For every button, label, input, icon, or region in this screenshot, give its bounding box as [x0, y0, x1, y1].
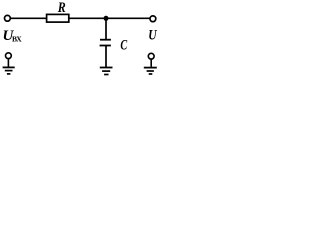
wire lower-right terminal to ground — [150, 59, 152, 67]
svg-text:ВХ: ВХ — [12, 35, 22, 44]
wire resistor to output terminal — [69, 17, 151, 19]
wire input to resistor — [11, 17, 47, 19]
ground lower-right — [144, 68, 157, 74]
output terminal circle — [150, 16, 156, 22]
wire junction down to capacitor — [105, 18, 107, 39]
ground lower-left — [3, 67, 15, 74]
capacitor C top plate — [100, 39, 111, 41]
lower-left terminal circle — [5, 53, 11, 59]
wire lower-left terminal to ground — [7, 59, 9, 67]
resistor R — [47, 14, 69, 22]
svg-text:U: U — [148, 28, 157, 44]
node junction — [104, 16, 109, 21]
capacitor C bottom plate — [100, 45, 111, 47]
lower-right terminal circle — [148, 53, 154, 59]
wire capacitor to ground — [105, 46, 107, 68]
svg-text:C: C — [120, 38, 127, 54]
input terminal circle — [5, 15, 11, 21]
svg-text:R: R — [57, 0, 66, 16]
ground under capacitor — [100, 68, 113, 75]
